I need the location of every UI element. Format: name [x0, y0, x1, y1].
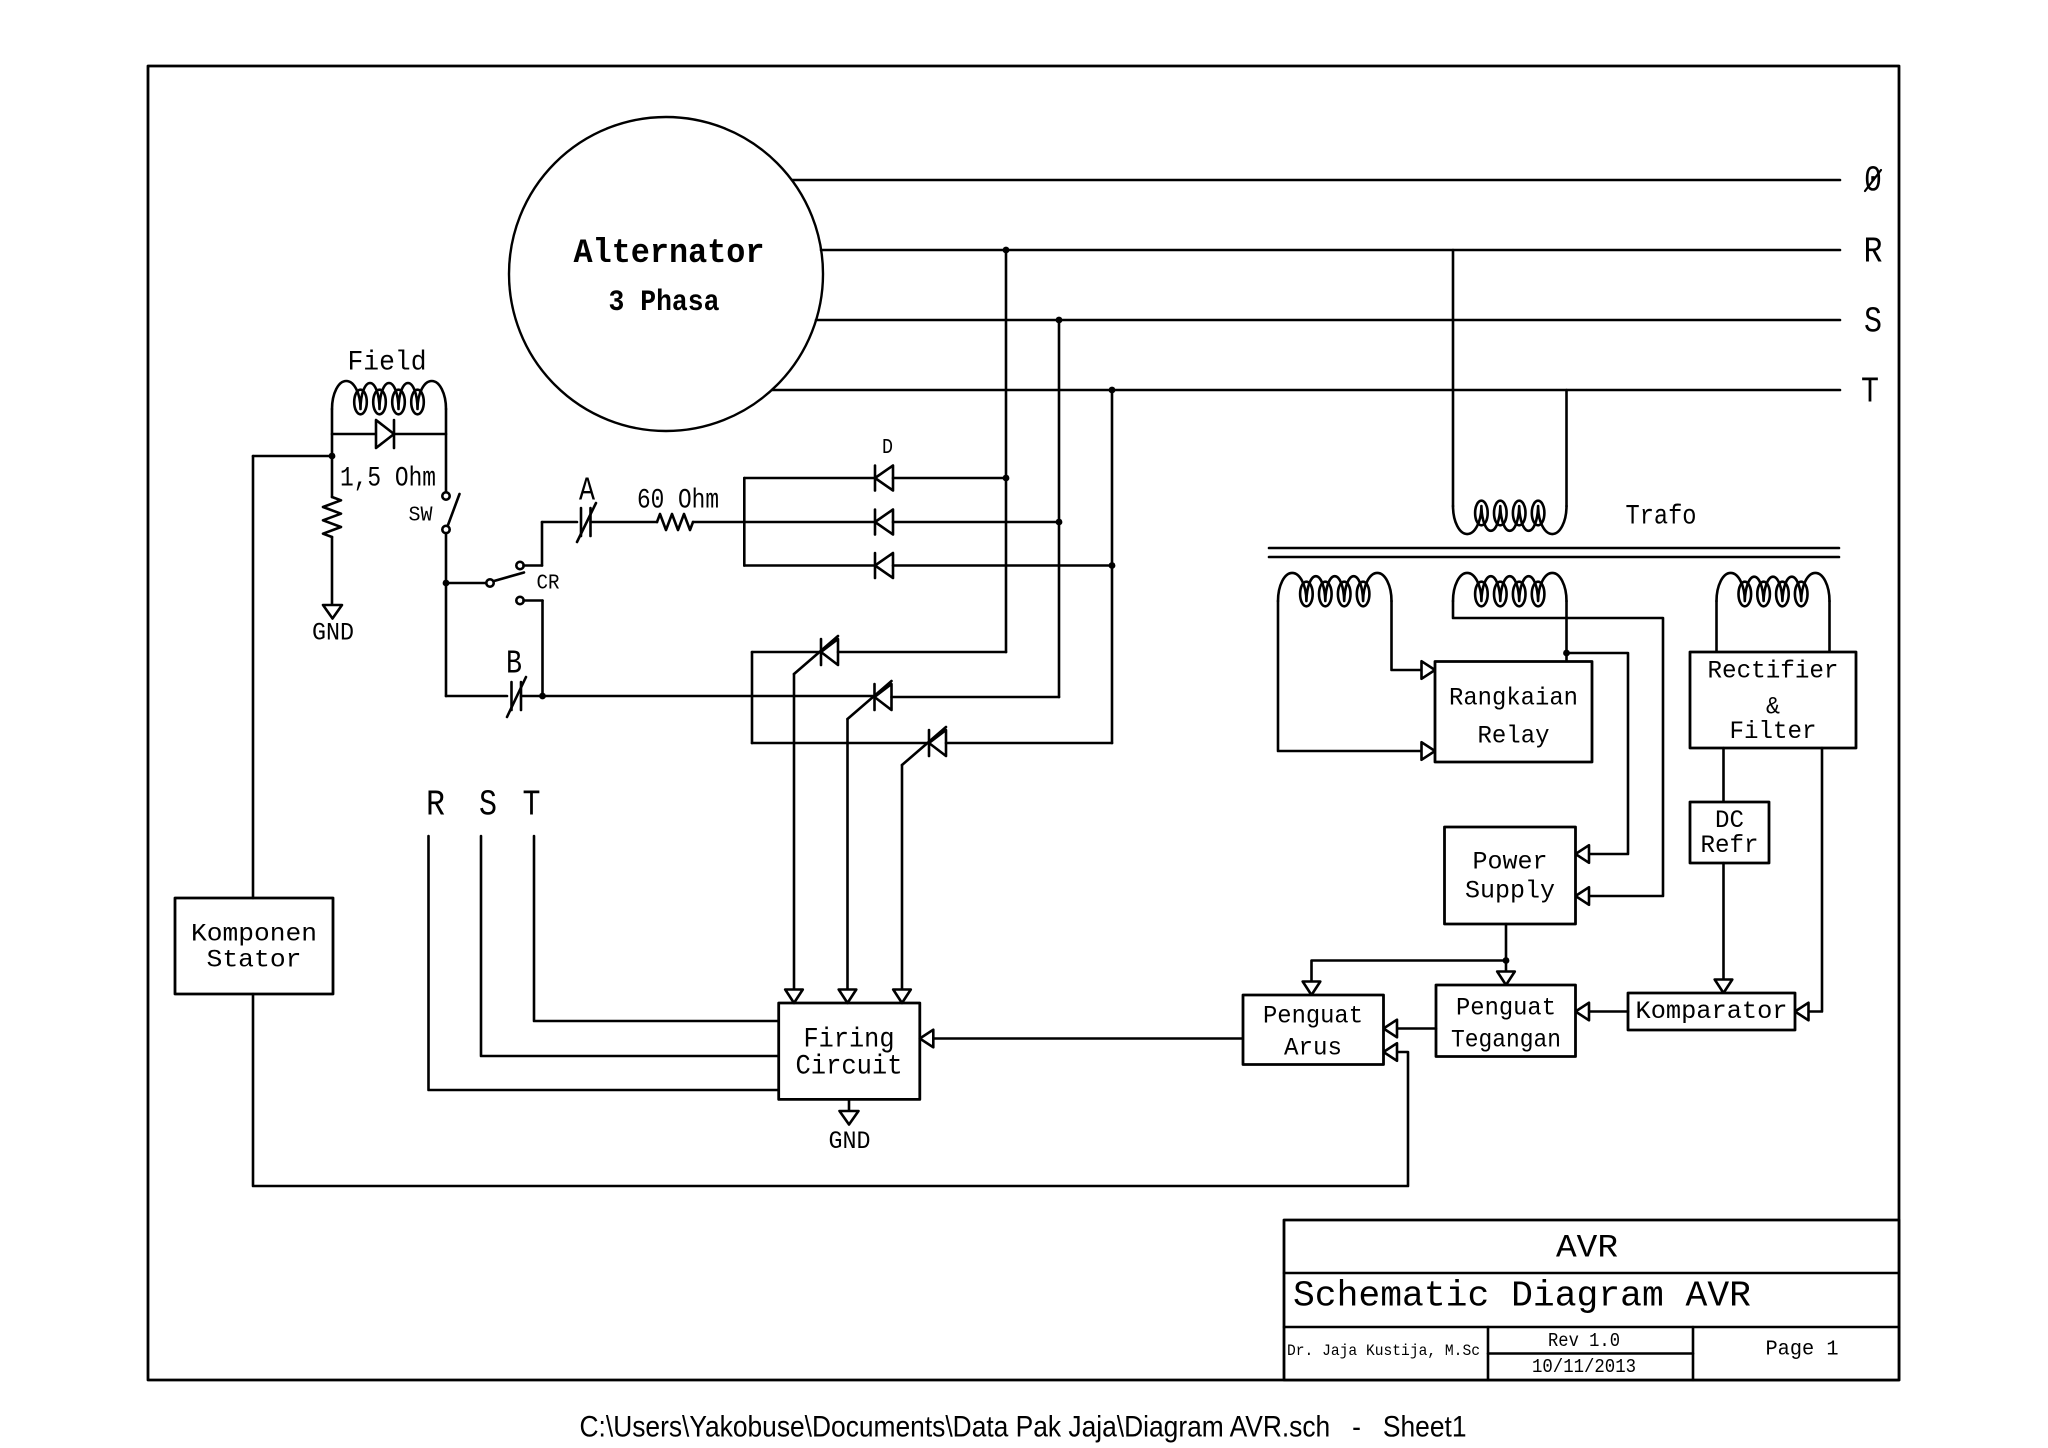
- wire B row: [446, 695, 507, 698]
- transformer primary coil: [1453, 506, 1567, 534]
- wire SCR3 gate: [901, 765, 904, 990]
- wire DC Refr to komparator: [1722, 863, 1725, 980]
- resistor R 1,5 Ohm (vertical): [331, 456, 334, 497]
- wire SCR1 gate: [793, 674, 796, 990]
- title block vertical divider left: [1487, 1327, 1490, 1380]
- wire power supply branch to penguat arus: [1312, 961, 1507, 983]
- wire stator loop to penguat arus: [253, 994, 1408, 1186]
- wire field right lead: [445, 409, 448, 492]
- svg-text:Field: Field: [348, 348, 427, 379]
- node junction dot field/stator: [329, 453, 336, 460]
- wire tap S to diodes/SCR2: [1058, 320, 1061, 697]
- wire dot branch to power supply: [1567, 653, 1629, 854]
- transformer secondary coil 3: [1717, 573, 1830, 601]
- wire T to firing circuit: [534, 836, 779, 1021]
- svg-text:Tegangan: Tegangan: [1451, 1026, 1561, 1055]
- ground GND below resistor: [323, 605, 342, 619]
- wire R to trafo primary: [1452, 250, 1455, 506]
- svg-text:GND: GND: [829, 1127, 871, 1156]
- diode freewheel across field: [332, 433, 446, 436]
- thyristor SCR1: [752, 651, 821, 654]
- block Penguat Tegangan: [1436, 985, 1576, 1057]
- svg-text:C:\Users\Yakobuse\Documents\Da: C:\Users\Yakobuse\Documents\Data Pak Jaj…: [580, 1411, 1467, 1444]
- outer border frame (decorative): [148, 66, 1899, 1380]
- svg-text:Power: Power: [1473, 848, 1548, 877]
- switch SW: [442, 492, 449, 499]
- wire A row: [542, 521, 577, 524]
- svg-text:GND: GND: [312, 619, 354, 648]
- svg-text:Page 1: Page 1: [1766, 1339, 1839, 1362]
- wire T to trafo primary: [1565, 390, 1568, 506]
- block Penguat Arus: [1243, 995, 1384, 1065]
- svg-text:Trafo: Trafo: [1626, 502, 1697, 533]
- svg-text:1,5 Ohm: 1,5 Ohm: [340, 464, 436, 495]
- wire penguat tegangan to penguat arus: [1397, 1027, 1437, 1030]
- svg-text:10/11/2013: 10/11/2013: [1532, 1356, 1636, 1378]
- wire coil2 right into relay: [1565, 601, 1568, 662]
- wire power supply to penguat tegangan: [1505, 924, 1508, 972]
- svg-text:Circuit: Circuit: [796, 1052, 903, 1083]
- svg-text:R: R: [1864, 232, 1883, 273]
- svg-text:SW: SW: [409, 505, 433, 528]
- switch CR lower contact: [516, 597, 523, 604]
- svg-text:Penguat: Penguat: [1263, 1002, 1363, 1031]
- node dot row1: [1003, 475, 1010, 482]
- wire bus S: [816, 319, 1840, 322]
- wire bus R: [821, 249, 1840, 252]
- wire penguat arus to firing circuit: [932, 1037, 1243, 1040]
- title block frame: [1284, 1220, 1899, 1380]
- svg-text:T: T: [1861, 372, 1879, 413]
- wire komparator to penguat tegangan: [1589, 1010, 1629, 1013]
- transformer core: [1269, 547, 1839, 550]
- svg-text:Penguat: Penguat: [1456, 994, 1556, 1023]
- block Rangkaian Relay: [1435, 662, 1592, 763]
- svg-text:AVR: AVR: [1556, 1230, 1618, 1267]
- svg-text:R: R: [426, 785, 445, 826]
- svg-text:A: A: [579, 473, 595, 510]
- switch CR common: [446, 582, 486, 585]
- transformer secondary coil 1: [1278, 573, 1392, 601]
- node dot tap S: [1056, 317, 1063, 324]
- block Komponen Stator: [175, 898, 333, 994]
- block Rectifier & Filter: [1690, 652, 1856, 748]
- inductor Field coil: [332, 381, 446, 409]
- diode D row3: [744, 564, 875, 567]
- svg-text:Stator: Stator: [207, 946, 302, 975]
- switch CR upper contact: [516, 562, 523, 569]
- alternator G1 circle: [509, 117, 823, 431]
- ground GND below firing circuit: [848, 1099, 851, 1111]
- node junction dot SW/CR: [443, 580, 450, 587]
- node dot power supply branch: [1503, 957, 1510, 964]
- thyristor SCR3: [752, 742, 929, 745]
- svg-text:Supply: Supply: [1465, 877, 1555, 906]
- wire SCR2 gate: [846, 719, 849, 990]
- wire rectifier to DC Refr: [1722, 748, 1725, 802]
- block Komparator: [1628, 993, 1795, 1030]
- wire rectifier to komparator right: [1808, 748, 1822, 1012]
- node junction dot B/CR: [539, 693, 546, 700]
- node dot row3: [1109, 562, 1116, 569]
- wire to stator junction: [253, 455, 332, 458]
- block Power Supply: [1445, 827, 1576, 924]
- node dot row2: [1056, 519, 1063, 526]
- svg-text:Dr. Jaja Kustija, M.Sc: Dr. Jaja Kustija, M.Sc: [1287, 1342, 1480, 1360]
- svg-text:Komparator: Komparator: [1636, 997, 1788, 1026]
- block DC Refr: [1690, 802, 1769, 863]
- svg-text:T: T: [523, 785, 541, 826]
- svg-text:Schematic Diagram AVR: Schematic Diagram AVR: [1293, 1276, 1751, 1317]
- svg-text:S: S: [1864, 302, 1882, 343]
- block Firing Circuit: [779, 1003, 920, 1099]
- wire tap R to diodes/SCR1: [1005, 250, 1008, 652]
- svg-text:Rev 1.0: Rev 1.0: [1548, 1330, 1620, 1352]
- svg-text:B: B: [506, 646, 522, 683]
- wire diode bank left bus: [743, 478, 746, 566]
- svg-text:60 Ohm: 60 Ohm: [637, 486, 719, 517]
- wire coil3 into rectifier: [1715, 601, 1718, 652]
- svg-text:Rangkaian: Rangkaian: [1449, 684, 1578, 713]
- svg-text:Filter: Filter: [1730, 717, 1817, 746]
- wire below SW: [445, 533, 448, 696]
- wire coil1 left to relay lower input: [1278, 601, 1421, 751]
- wire R to firing circuit: [429, 836, 779, 1090]
- svg-text:CR: CR: [537, 573, 560, 596]
- wire bus 0: [792, 179, 1840, 182]
- svg-text:Arus: Arus: [1284, 1034, 1342, 1063]
- wire coil1 right to relay upper input: [1392, 601, 1422, 670]
- wire bus T: [772, 389, 1840, 392]
- diode D row2: [874, 510, 877, 535]
- contact B (NC contact): [510, 682, 513, 710]
- node dot tap T: [1109, 387, 1116, 394]
- wire tap T to diodes/SCR3: [1111, 390, 1114, 743]
- thyristor SCR2: [873, 684, 876, 710]
- svg-text:Rectifier: Rectifier: [1708, 657, 1839, 686]
- svg-text:Refr: Refr: [1701, 831, 1759, 860]
- svg-text:D: D: [882, 437, 893, 460]
- arrowheads gates into firing circuit: [785, 990, 803, 1004]
- title block rev/date divider: [1488, 1352, 1693, 1355]
- transformer secondary coil 2: [1453, 573, 1567, 601]
- title block divider 1: [1284, 1272, 1899, 1275]
- diode D row1: [744, 477, 875, 480]
- wire field left lead: [331, 409, 334, 456]
- title block divider 2: [1284, 1326, 1899, 1329]
- svg-text:Alternator: Alternator: [574, 235, 765, 273]
- svg-text:S: S: [479, 785, 497, 826]
- wire SCR left bus: [751, 652, 754, 743]
- title block vertical divider right: [1692, 1327, 1695, 1380]
- node dot coil2/power supply branch: [1563, 650, 1570, 657]
- wire coil2 left branch to power supply: [1453, 601, 1663, 896]
- contact A (NC contact): [580, 508, 583, 536]
- wire S to firing circuit: [481, 836, 779, 1056]
- svg-text:3 Phasa: 3 Phasa: [609, 286, 720, 320]
- svg-text:Relay: Relay: [1478, 722, 1550, 751]
- wire stator to field junction: [252, 456, 255, 898]
- svg-text:Komponen: Komponen: [191, 920, 317, 949]
- node dot tap R: [1003, 247, 1010, 254]
